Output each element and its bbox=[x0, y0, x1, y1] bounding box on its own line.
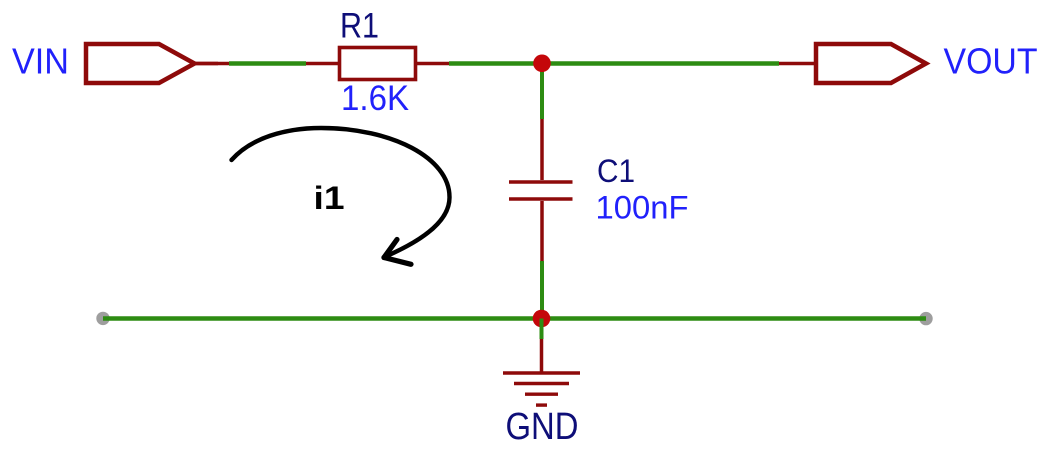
svg-text:R1: R1 bbox=[340, 7, 379, 46]
resistor R1 bbox=[306, 48, 449, 80]
port VOUT bbox=[779, 44, 926, 83]
wire R1 to node A bbox=[449, 61, 542, 65]
svg-text:1.6K: 1.6K bbox=[341, 79, 409, 118]
capacitor C1 bbox=[509, 119, 573, 261]
bottom rail wire bbox=[103, 316, 926, 320]
wire node A to VOUT bbox=[542, 61, 779, 65]
wire node A down bbox=[540, 64, 544, 120]
wire C1 to node B bbox=[540, 261, 544, 319]
svg-text:VIN: VIN bbox=[12, 41, 69, 82]
wire end right bbox=[919, 312, 932, 325]
junction node B bbox=[533, 310, 551, 328]
wire VIN to R1 bbox=[229, 61, 306, 65]
port VIN bbox=[86, 44, 218, 83]
junction node A bbox=[533, 55, 551, 73]
svg-text:100nF: 100nF bbox=[596, 190, 689, 226]
wire VIN pin bbox=[195, 62, 230, 66]
svg-text:VOUT: VOUT bbox=[944, 41, 1038, 82]
svg-text:C1: C1 bbox=[597, 153, 635, 189]
current loop arrow i1 bbox=[232, 128, 450, 264]
svg-text:GND: GND bbox=[506, 406, 579, 448]
svg-text:i1: i1 bbox=[314, 180, 345, 216]
wire end left bbox=[96, 312, 109, 325]
ground bbox=[503, 319, 580, 406]
